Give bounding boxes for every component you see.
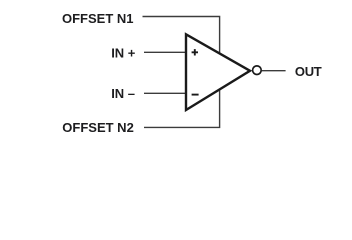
wire OFFSET N2 to op-amp bottom edge	[144, 88, 220, 128]
svg-text:OUT: OUT	[295, 64, 322, 79]
plus sign (non-inverting input marker)	[192, 49, 198, 55]
svg-text:IN –: IN –	[111, 86, 135, 101]
svg-text:OFFSET N2: OFFSET N2	[62, 120, 134, 135]
wire OFFSET N1 to op-amp top edge	[143, 17, 220, 56]
op-amp U1 triangle	[186, 34, 250, 110]
wire IN−	[144, 92, 187, 94]
svg-text:IN +: IN +	[111, 45, 136, 60]
output inversion circle	[253, 66, 262, 75]
wire OUT	[262, 70, 286, 72]
svg-text:OFFSET N1: OFFSET N1	[62, 11, 134, 26]
minus sign (inverting input marker)	[192, 94, 199, 96]
wire IN+	[144, 51, 187, 53]
